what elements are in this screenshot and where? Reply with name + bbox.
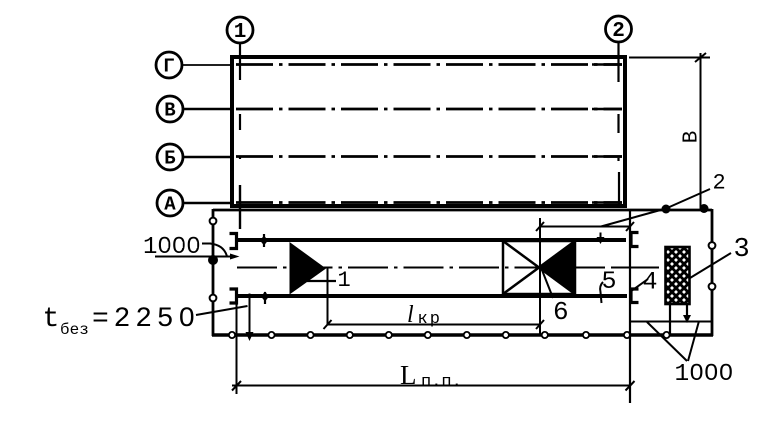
svg-text:6: 6	[553, 297, 569, 327]
tick right L	[626, 381, 635, 391]
L_п.п. dimension line	[232, 385, 631, 387]
leader 1000 left: dash, arc, underline with arrow	[202, 243, 211, 245]
svg-text:2: 2	[713, 171, 726, 196]
crane box diagonal 2	[503, 241, 575, 294]
fence post circles bottom	[229, 332, 670, 338]
axis line Б (dash-dot inside building)	[236, 155, 622, 158]
svg-text:1: 1	[234, 21, 247, 44]
short boundary segment line right	[631, 321, 712, 323]
svg-text:t: t	[43, 304, 60, 335]
leader 1000 right a	[647, 322, 687, 361]
dimension В extension line top	[629, 57, 710, 59]
tick at 540	[536, 222, 544, 231]
svg-text:А: А	[164, 194, 176, 216]
svg-text:кр: кр	[418, 310, 442, 329]
site boundary top line	[213, 209, 712, 212]
leg below hatched rect left	[669, 304, 671, 335]
svg-text:5: 5	[602, 267, 617, 296]
svg-text:l: l	[407, 302, 414, 328]
site boundary left line	[212, 209, 215, 336]
leg below hatched rect right with arrow	[686, 304, 688, 316]
svg-text:без: без	[60, 321, 89, 339]
dimension В vertical line	[700, 53, 702, 209]
zero-dot masks (typewriter zeros have no dot)	[163, 242, 729, 375]
axis line В (dash-dot inside building)	[236, 108, 622, 111]
leader for t_без	[196, 306, 248, 315]
wire: axis В to building	[183, 108, 233, 110]
axis circle В	[157, 96, 183, 122]
leader for label 6	[540, 265, 553, 298]
site boundary right line	[711, 209, 714, 336]
svg-text:2: 2	[612, 20, 625, 43]
leader 1000 right b	[688, 321, 699, 361]
crane hook extreme triangle right (item 6 pointer)	[540, 242, 576, 294]
leader for label 1	[307, 280, 336, 282]
column circle 2	[606, 16, 632, 42]
tick left L	[232, 381, 241, 391]
leader for label 3	[690, 253, 731, 278]
crane position marker arrow upper-right	[600, 233, 602, 239]
tick at 630	[626, 222, 634, 231]
wire: axis А to building	[183, 202, 233, 204]
crane runway centerline (dash-dot)	[237, 267, 605, 269]
column axis 2 vertical (dash-dot)	[617, 42, 619, 82]
crane box diagonal 1	[503, 241, 575, 294]
column circle 1	[227, 17, 253, 43]
tick right l_кр	[536, 320, 544, 329]
dimension line upper-right (rail end to crane axis)	[540, 226, 630, 228]
dot on boundary at 1000 leader	[208, 255, 218, 265]
tick left l_кр	[324, 320, 332, 329]
column axis 1 vertical (dash-dot)	[239, 43, 241, 80]
dot where leader 2 crosses boundary	[662, 205, 671, 214]
building outline (plan rectangle)	[232, 57, 625, 206]
svg-text:В: В	[681, 131, 704, 144]
dimension В top tick	[695, 53, 706, 62]
crane position marker tick lower-left	[264, 292, 266, 304]
rail end stop bracket upper-right	[631, 233, 639, 247]
leader for label 5	[600, 282, 603, 303]
rail end stop bracket upper-left	[230, 234, 237, 249]
svg-text:L: L	[400, 360, 417, 390]
fence post circles left side	[210, 218, 217, 225]
L extension left	[236, 289, 238, 394]
axis line solid end segments at right edge	[592, 65, 622, 203]
svg-text:1: 1	[338, 268, 351, 293]
extension line right x=630	[629, 210, 631, 403]
extension line at crane axis x=540	[539, 218, 541, 335]
svg-text:п.п.: п.п.	[421, 373, 462, 392]
rail end stop bracket lower-left	[230, 289, 237, 303]
svg-text:3: 3	[734, 235, 750, 265]
axis line Г (dash-dot inside building)	[236, 63, 622, 66]
dimension В bottom dot	[700, 204, 709, 213]
l_кр dimension line	[328, 324, 541, 326]
crane symbol box with X (bridge crane)	[503, 241, 575, 294]
fence post circles right side	[709, 242, 716, 249]
svg-text:Г: Г	[163, 56, 174, 78]
hatched rectangle (item 3, buffer zone)	[666, 247, 690, 304]
leader for label 2	[601, 189, 710, 227]
crane hook extreme triangle left (item 1)	[290, 242, 327, 295]
rail end stop bracket lower-right	[631, 289, 639, 303]
svg-text:В: В	[164, 100, 175, 122]
axis circle А	[157, 190, 183, 216]
l_кр dimension extension (from label 1 leader down)	[327, 268, 329, 325]
upper crane rail	[238, 238, 626, 242]
axis circle Г	[156, 52, 182, 78]
wire: axis Б to building	[183, 156, 233, 158]
svg-text:Б: Б	[164, 148, 175, 170]
crane position marker tick upper-left	[263, 234, 265, 247]
leader for label 4	[632, 279, 648, 291]
site fence bottom line	[212, 333, 713, 336]
lower crane rail	[238, 294, 627, 298]
wire: axis Г to building	[182, 64, 233, 66]
t_без extension vertical with down arrow	[249, 294, 251, 335]
axis line А (dash-dot inside building)	[236, 201, 622, 204]
axis circle Б	[157, 144, 183, 170]
